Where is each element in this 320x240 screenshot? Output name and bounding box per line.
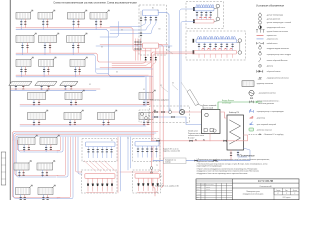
svg-text:Н.контр: Н.контр (197, 194, 202, 196)
svg-text:Схема тепломеханическая систем: Схема тепломеханическая системы отоплени… (53, 2, 137, 5)
svg-text:оборудованных жилых дома: оборудованных жилых дома (243, 193, 264, 195)
svg-text:- Внимание! К от подбору: - Внимание! К от подбору (264, 134, 284, 136)
svg-text:Примечания: Примечания (240, 154, 255, 158)
svg-text:Разраб: Разраб (197, 187, 201, 189)
svg-text:корректируйте В спецификации.: корректируйте В спецификации. (197, 165, 223, 168)
svg-text:Иванов: Иванов (206, 187, 210, 189)
svg-text:КЗ: КЗ (101, 47, 103, 49)
svg-text:- прямая сеть: - прямая сеть (266, 35, 277, 37)
svg-text:КЗ: КЗ (160, 85, 162, 87)
svg-text:Р: Р (278, 193, 279, 195)
svg-text:КЗ: КЗ (121, 30, 123, 32)
svg-text:В1: В1 (152, 8, 154, 10)
svg-text:Листов: Листов (293, 190, 298, 192)
svg-text:- фильтр: - фильтр (266, 64, 273, 67)
svg-text:КЗ: КЗ (168, 47, 170, 49)
svg-text:КЗ: КЗ (160, 176, 162, 178)
svg-text:КЗ: КЗ (111, 140, 113, 142)
svg-text:КЗ: КЗ (172, 83, 174, 85)
svg-text:Т2: Т2 (156, 165, 158, 167)
svg-text:Помещение узла: Помещение узла (246, 191, 259, 193)
svg-text:Закрыт! 45° на С, шайба из 40: Закрыт! 45° на С, шайба из 40 (155, 184, 179, 187)
svg-text:- клапан обратный Вентиль: - клапан обратный Вентиль (266, 59, 288, 62)
svg-text:- предохранительный клапан: - предохранительный клапан (266, 77, 289, 80)
svg-text:- терморегулятор с сервопривод: - терморегулятор с сервоприводом (256, 111, 284, 113)
svg-text:- датчик температуры: - датчик температуры (266, 15, 284, 17)
svg-text:Т1: Т1 (127, 138, 129, 140)
svg-text:- гребенка латунная: - гребенка латунная (256, 129, 272, 131)
svg-text:- группа безопасности котла: - группа безопасности котла (266, 31, 288, 33)
svg-text:КЗ: КЗ (143, 89, 145, 91)
svg-text:- циркуляционный насос: - циркуляционный насос (266, 26, 285, 29)
svg-text:Изм Кол Лист №док Подп Дата: Изм Кол Лист №док Подп Дата (197, 184, 214, 186)
svg-text:теплоноситель смеси: теплоноситель смеси (188, 135, 204, 137)
svg-text:- датчик температуры с гильзой: - датчик температуры с гильзой (266, 21, 291, 24)
svg-text:ООО проект: ООО проект (283, 197, 291, 199)
svg-text:Т1: Т1 (157, 10, 159, 12)
svg-text:КЗ: КЗ (116, 72, 118, 74)
svg-text:Смесительный узел: Смесительный узел (150, 99, 169, 102)
svg-text:вентиляция: вентиляция (222, 102, 231, 104)
svg-text:КЗ: КЗ (89, 84, 91, 86)
svg-text:- радиатор отопления: - радиатор отопления (256, 83, 273, 85)
svg-text:- воздухоотводчик автоматич.: - воздухоотводчик автоматич. (266, 48, 290, 50)
svg-text:оборудованы были систем произв: оборудованы были систем производственно … (197, 173, 249, 175)
svg-text:- гибкий шланг: - гибкий шланг (266, 42, 278, 45)
svg-text:Подключение из сети!: Подключение из сети! (188, 133, 205, 135)
svg-text:В схеме!: В схеме! (188, 137, 195, 139)
svg-text:КЗ: КЗ (159, 29, 161, 31)
svg-text:Стадия: Стадия (276, 190, 281, 192)
svg-text:Бойлер ГВ: Бойлер ГВ (229, 111, 240, 114)
svg-text:Лист: Лист (285, 190, 288, 192)
svg-text:- расширительный бак: - расширительный бак (258, 92, 276, 95)
svg-text:бойлер: бойлер (165, 161, 171, 164)
svg-text:Петров: Петров (206, 189, 210, 191)
svg-text:Условные обозначения: Условные обозначения (256, 3, 285, 7)
svg-text:- обратная сеть: - обратная сеть (266, 39, 278, 41)
svg-text:- регулятор: - регулятор (256, 117, 265, 119)
svg-text:- кран шаровой запорный: - кран шаровой запорный (256, 123, 276, 126)
svg-text:подключ. схема из 40: подключ. схема из 40 (163, 151, 180, 153)
svg-text:Т1: Т1 (156, 192, 158, 194)
svg-text:выносным датчиком: выносным датчиком (258, 103, 275, 105)
svg-text:- обратный клапан: - обратный клапан (266, 70, 281, 73)
svg-text:- терморегулятор комн. воздуха: - терморегулятор комн. воздуха (266, 54, 291, 56)
svg-text:- датчик давления: - датчик давления (266, 18, 280, 20)
svg-text:2: 2 (294, 193, 295, 195)
svg-text:04 ТУ-ОВ-ПВ: 04 ТУ-ОВ-ПВ (258, 180, 274, 183)
